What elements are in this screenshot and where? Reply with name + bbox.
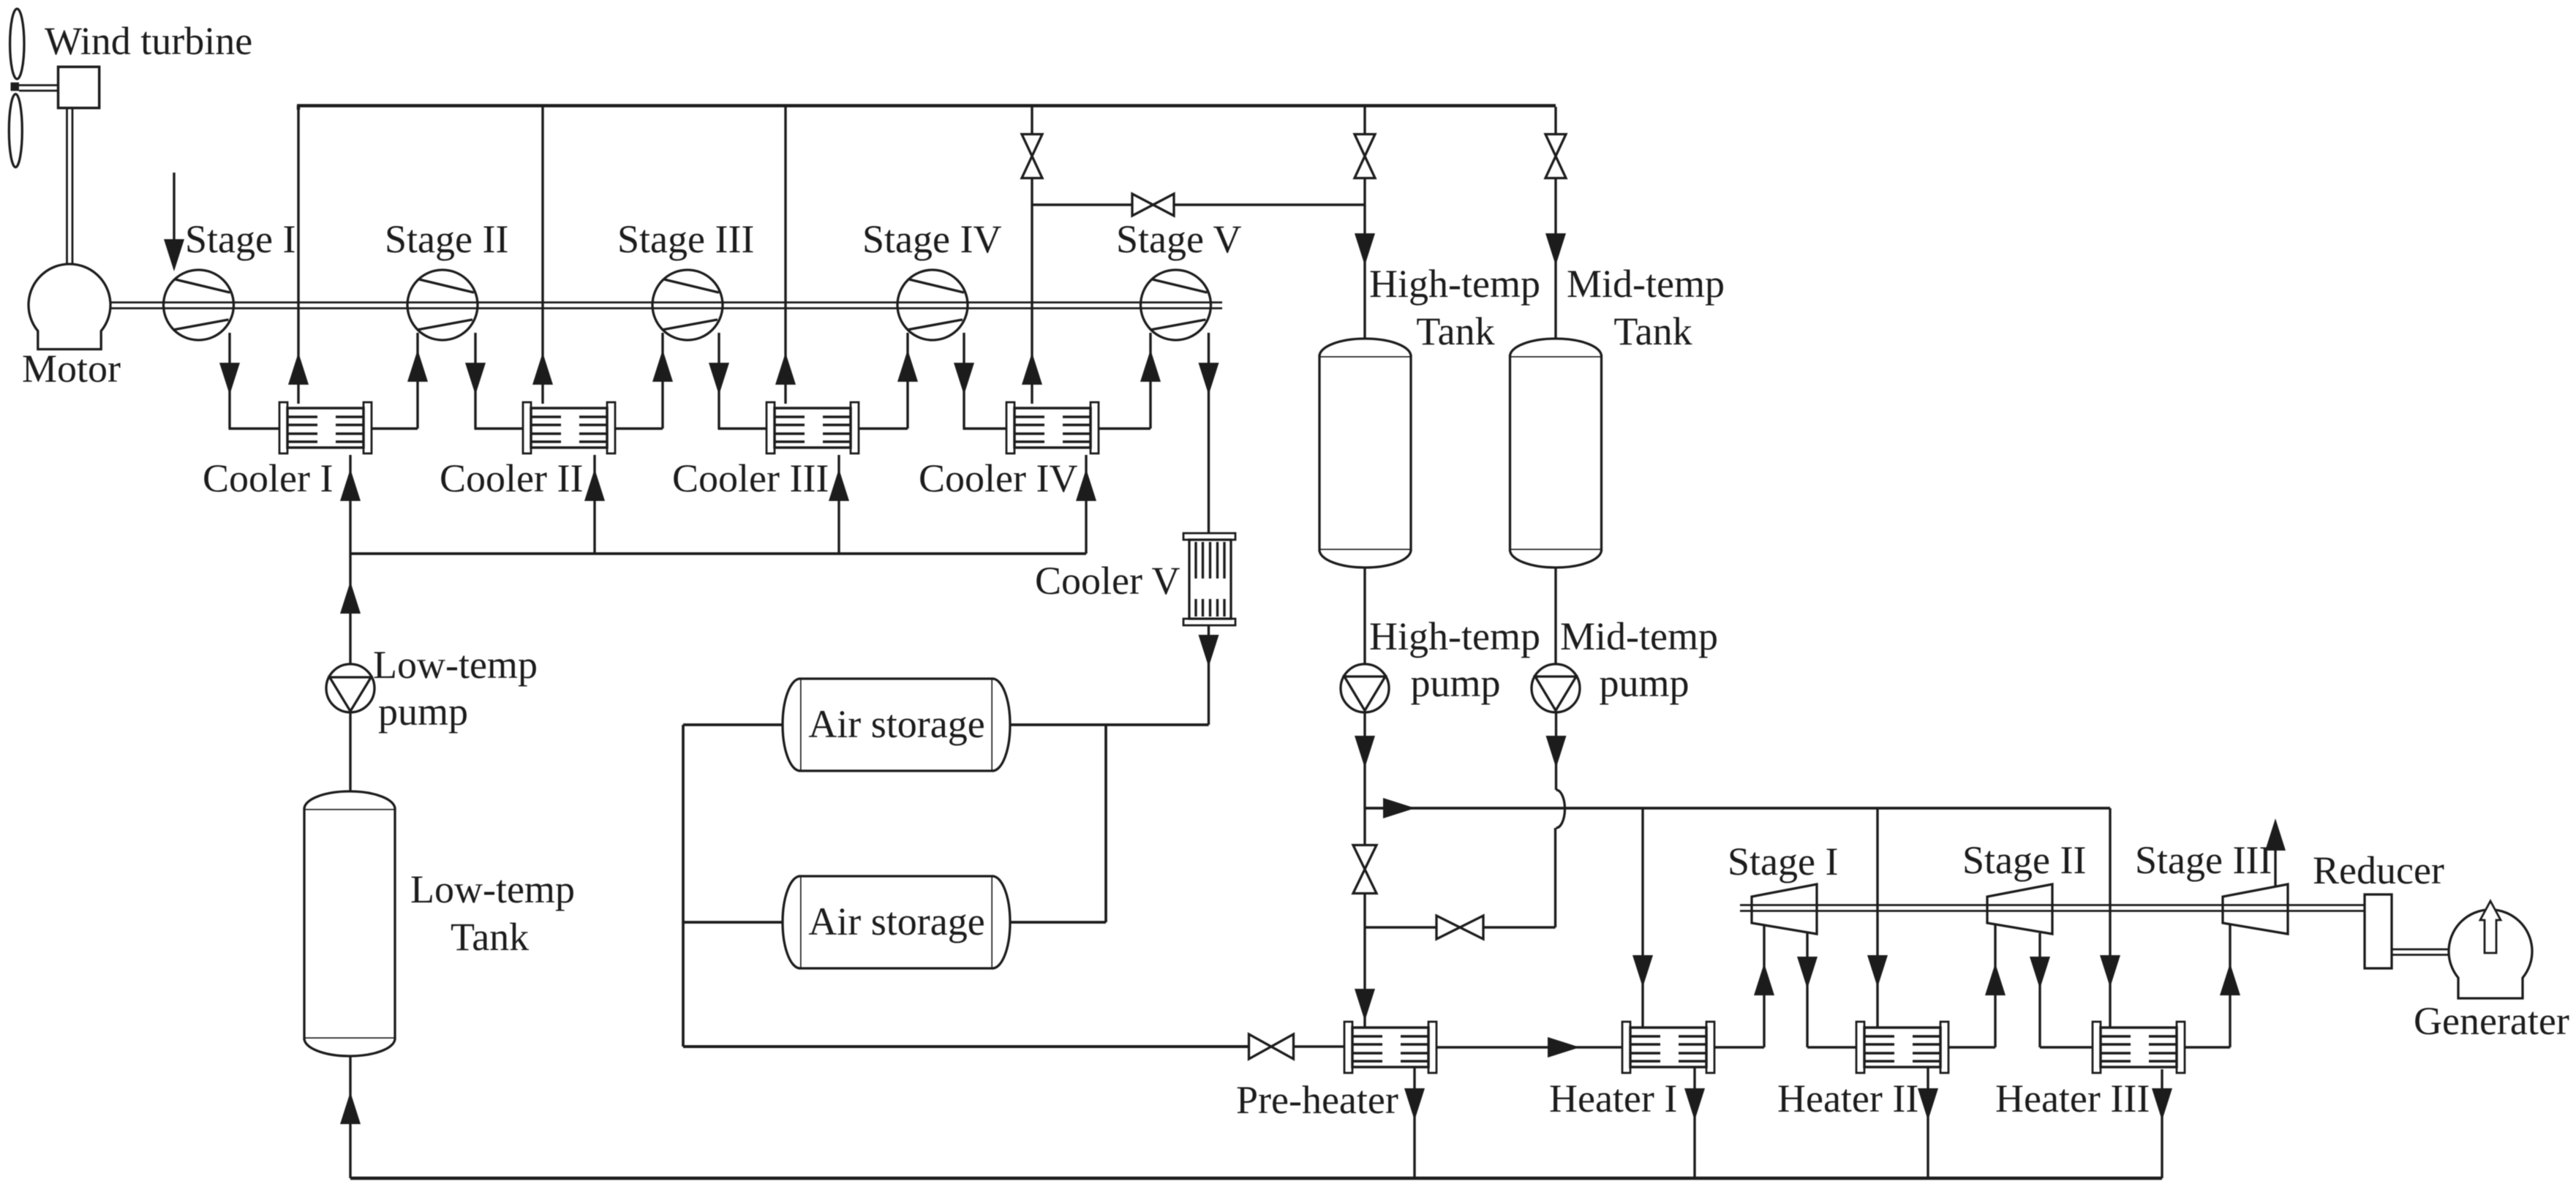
wire Pre-heater drain [1404,1068,1425,1178]
condensate drain line [350,1069,2162,1178]
svg-text:Low-temp: Low-temp [373,643,538,687]
svg-text:Stage II: Stage II [1962,838,2086,882]
wire Mid-temp Tank to pump [1554,568,1556,664]
air storage tank upper label [808,702,984,746]
wire Stage I outlet to Cooler I [219,333,279,429]
Low-temp Tank label [410,867,575,959]
wire Cooler IV outlet to Stage V inlet [1099,333,1161,429]
wire supply to Heater III [2100,808,2120,1027]
svg-text:Motor: Motor [22,347,121,391]
wire turbine Stage II exhaust to Heater III [2030,933,2093,1047]
wire Cooler III water outlet riser [775,107,796,404]
hot water bypass line [1365,926,1556,928]
wire turbine Stage III exhaust [2265,818,2286,886]
tank Mid-temp Tank [1510,339,1602,568]
discharge air line [683,1045,1249,1048]
svg-text:Air storage: Air storage [808,900,984,943]
Generater label [2414,999,2569,1043]
hot water manifold [297,106,1556,110]
wind turbine label [45,19,252,63]
compressor Stage II label [385,217,508,261]
compressor Stage II [407,270,478,340]
hot water supply line [1365,798,2110,818]
air storage tank lower label [808,900,984,943]
svg-text:High-temp: High-temp [1369,262,1540,306]
svg-text:Stage III: Stage III [617,217,754,261]
wire Cooler I outlet to Stage II inlet [372,333,428,429]
wire Heater III drain [2152,1088,2172,1120]
turbine Stage I [1752,884,1817,934]
Heater III label [1995,1077,2150,1120]
Cooler III label [672,456,829,500]
valve on High-temp Tank feed [1355,135,1375,178]
cooler Cooler IV [1006,402,1099,453]
Cooler II label [440,456,583,500]
Heater I label [1549,1077,1677,1120]
Cooler IV label [919,456,1077,500]
svg-text:Stage I: Stage I [1728,840,1838,883]
Mid-temp Tank label [1567,262,1725,353]
svg-text:Stage IV: Stage IV [862,217,1001,261]
wire manifold to High-temp valve [1363,107,1366,135]
motor M1 [29,264,110,350]
wire High-temp valve to tank [1355,178,1375,339]
svg-text:Low-temp: Low-temp [410,867,575,911]
compressor Stage III [652,270,723,340]
cooler Cooler V [1183,533,1235,625]
reducer box [2365,894,2392,968]
tank Low-temp Tank [304,791,395,1056]
cooler Cooler I [279,402,372,453]
Cooler V label [1035,559,1180,603]
wire Stage IV outlet to Cooler IV [954,333,1006,429]
cooler Cooler II [523,402,615,453]
svg-text:Heater III: Heater III [1995,1077,2150,1120]
svg-text:pump: pump [1410,661,1500,705]
heat exchanger Heater III [2093,1022,2185,1073]
Heater II label [1777,1077,1918,1120]
wire valve to Pre-heater [1293,1045,1344,1047]
heat exchanger Heater II [1856,1022,1948,1073]
wire Cooler III outlet to Stage IV inlet [859,333,918,429]
generator coupling [2392,949,2449,955]
turbine Stage I label [1728,840,1838,883]
svg-text:Heater II: Heater II [1777,1077,1918,1120]
atmospheric inlet wire into Stage I [164,173,184,271]
wire Cooler I water outlet riser [288,107,309,404]
Cooler I label [203,456,333,500]
svg-text:High-temp: High-temp [1369,614,1540,658]
svg-text:Heater I: Heater I [1549,1077,1677,1120]
svg-text:Tank: Tank [1613,309,1692,353]
air storage tank upper [783,679,1010,771]
svg-text:pump: pump [1599,661,1689,705]
wire Pre-heater to Heater I [1436,1037,1622,1058]
valve on discharge air line [1249,1034,1294,1059]
compressor Stage V [1141,270,1211,340]
turbine Stage II label [1962,838,2086,882]
compressor Stage IV label [862,217,1001,261]
turbine shaft [1740,905,2365,911]
turbine Stage III label [2135,838,2272,882]
wire High-temp pump outlet [1355,712,1375,808]
turbine Stage II [1987,884,2052,934]
svg-text:Reducer: Reducer [2313,848,2444,892]
wire Mid-temp pump outlet [1546,712,1567,927]
motor label [22,347,121,391]
Low-temp pump label [373,643,538,734]
Pre-heater label [1236,1078,1398,1122]
wire Heater I drain [1684,1068,1705,1178]
wire drain to Low-temp Tank [340,1056,361,1178]
wire Heater III to turbine Stage III [2185,925,2240,1047]
svg-text:Generater: Generater [2414,999,2569,1043]
valve below supply junction [1353,808,1376,894]
svg-text:Pre-heater: Pre-heater [1236,1078,1398,1122]
svg-text:pump: pump [378,690,468,734]
wire Cooler II water outlet riser [532,107,553,404]
wire Heater I to turbine Stage I [1714,926,1774,1047]
svg-text:Stage II: Stage II [385,217,508,261]
svg-text:Tank: Tank [451,915,529,959]
High-temp pump label [1369,614,1540,705]
compressor Stage V label [1116,217,1242,261]
wire Cooler V to air storage [1010,723,1209,726]
High-temp Tank label [1369,262,1540,353]
wind turbine rotor shaft [19,86,59,91]
air storage tank lower [783,876,1010,968]
wire water inlet to Cooler II [584,455,605,554]
svg-text:Cooler III: Cooler III [672,456,829,500]
wire Stage II outlet to Cooler II [465,333,523,429]
wire supply to Heater II [1867,808,1888,1027]
tank High-temp Tank [1319,339,1411,568]
cooler Cooler III [767,402,859,453]
compressor Stage III label [617,217,754,261]
svg-text:Stage I: Stage I [185,217,295,261]
svg-text:Stage V: Stage V [1116,217,1242,261]
valve on Mid-temp Tank feed [1545,135,1566,178]
cooling water header [350,552,1086,555]
svg-text:Cooler I: Cooler I [203,456,333,500]
compressor shaft [110,303,1222,309]
valve on air bypass branch [1132,194,1174,216]
wire header to Low-temp pump [340,554,361,664]
pump High-temp pump [1341,664,1389,712]
wire air storage right link [1010,725,1106,922]
Reducer label [2313,848,2444,892]
turbine Stage III [2223,884,2288,934]
svg-text:Wind turbine: Wind turbine [45,19,252,63]
svg-text:Stage III: Stage III [2135,838,2272,882]
wire water inlet to Cooler III [829,455,849,554]
Mid-temp pump label [1560,614,1718,705]
svg-text:Cooler IV: Cooler IV [919,456,1077,500]
wire High-temp Tank to pump [1363,568,1366,664]
svg-text:Cooler V: Cooler V [1035,559,1180,603]
tower pole to motor [67,108,73,265]
wire supply to Heater I [1632,808,1653,1027]
wire Cooler IV water outlet riser [1022,178,1042,404]
air bypass branch [1032,203,1365,206]
pump Low-temp pump [326,664,374,712]
svg-text:Air storage: Air storage [808,702,984,746]
wind turbine nacelle box [59,67,99,108]
wire air storage left link [683,725,783,1047]
compressor Stage I [164,270,234,340]
wind turbine rotor blades [9,9,24,167]
valve on Cooler IV riser [1022,107,1042,178]
heat exchanger Pre-heater [1344,1022,1436,1073]
generator G1 [2449,901,2532,998]
heat exchanger Heater I [1622,1022,1714,1073]
svg-text:Mid-temp: Mid-temp [1560,614,1718,658]
compressor Stage I label [185,217,295,261]
valve on hot water bypass [1436,916,1483,939]
wire Cooler V outlet [1199,625,1219,725]
wire Stage III outlet to Cooler III [709,333,767,429]
pump Mid-temp pump [1532,664,1580,712]
wire Cooler II outlet to Stage III inlet [615,333,673,429]
wire Heater II drain [1918,1068,1938,1178]
compressor Stage IV [897,270,968,340]
wire water inlet to Cooler IV [1076,455,1096,554]
svg-text:Mid-temp: Mid-temp [1567,262,1725,306]
svg-text:Tank: Tank [1416,309,1494,353]
wire turbine Stage I exhaust to Heater II [1797,933,1856,1047]
wire to Pre-heater water inlet [1355,927,1375,1027]
wire manifold to Mid-temp valve [1554,107,1556,135]
wire Stage V outlet to Cooler V [1199,333,1219,533]
svg-text:Cooler II: Cooler II [440,456,583,500]
wire Mid-temp valve to tank [1545,178,1566,339]
wire Heater II to turbine Stage II [1948,925,2006,1047]
wire Low-temp pump suction [349,712,351,791]
wire water inlet to Cooler I [340,455,361,554]
wire valve to bypass junction [1363,893,1366,927]
